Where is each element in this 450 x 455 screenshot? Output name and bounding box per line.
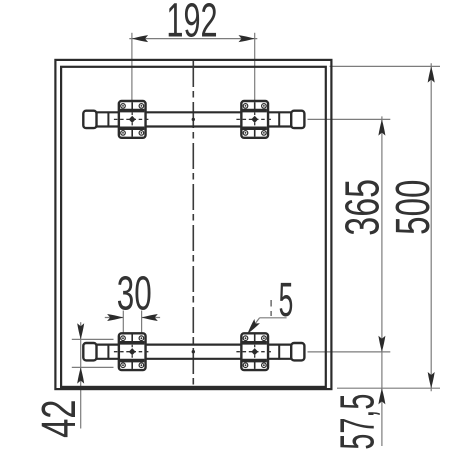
label 5 leader [249,318,260,332]
dimension 500 arrow bottom [428,372,435,388]
dimension 30 extension line left [122,311,124,335]
label 5 centerline [270,300,272,316]
dimension 192 line [129,38,257,40]
dimension 365 / 57,5 line [381,116,383,446]
dimension 30 arrow right [142,314,158,321]
dimension 192 arrow right [239,35,255,42]
dimension 57,5 arrow [378,388,385,404]
svg-text:365: 365 [334,179,388,236]
dimension 365 extension line top [308,118,391,120]
dimension 42 extension line top [72,338,114,340]
dimension 30 arrow left [107,314,123,321]
panel inner outline [61,67,326,387]
dimension 30 extension line right [141,311,143,335]
panel outer outline [55,60,331,389]
dimension 365 extension line bottom [308,351,391,353]
dimension 500 extension line top [330,65,441,67]
dimension 30 tail right [142,317,161,319]
dimension 500 arrow top [428,66,435,82]
bottom hanging rail [83,333,304,370]
svg-text:5: 5 [279,274,294,327]
svg-text:42: 42 [31,399,85,437]
svg-text:57,5: 57,5 [331,394,384,450]
dimension 42 line [80,322,82,428]
svg-text:192: 192 [166,0,217,47]
dimension 500 extension line bottom [337,387,440,389]
dimension 192 extension line right [254,33,256,101]
panel vertical centerline [192,61,194,388]
dimension 365 arrow bottom [378,336,385,352]
dimension 30 tail left [105,317,124,319]
svg-text:30: 30 [117,266,152,320]
dimension 365 arrow top [378,119,385,135]
dimension 42 extension line bottom [72,366,114,368]
label 5 leader shelf [260,317,287,319]
dimension 42 arrow bottom [77,367,84,383]
dimension 42 arrow top [77,323,84,339]
dimension 192 extension line left [131,33,133,101]
dimension 500 line [430,63,432,391]
dimension 192 arrow left [132,35,148,42]
svg-text:500: 500 [386,180,440,235]
label 5 leader arrow [245,319,260,336]
top hanging rail [83,101,304,138]
